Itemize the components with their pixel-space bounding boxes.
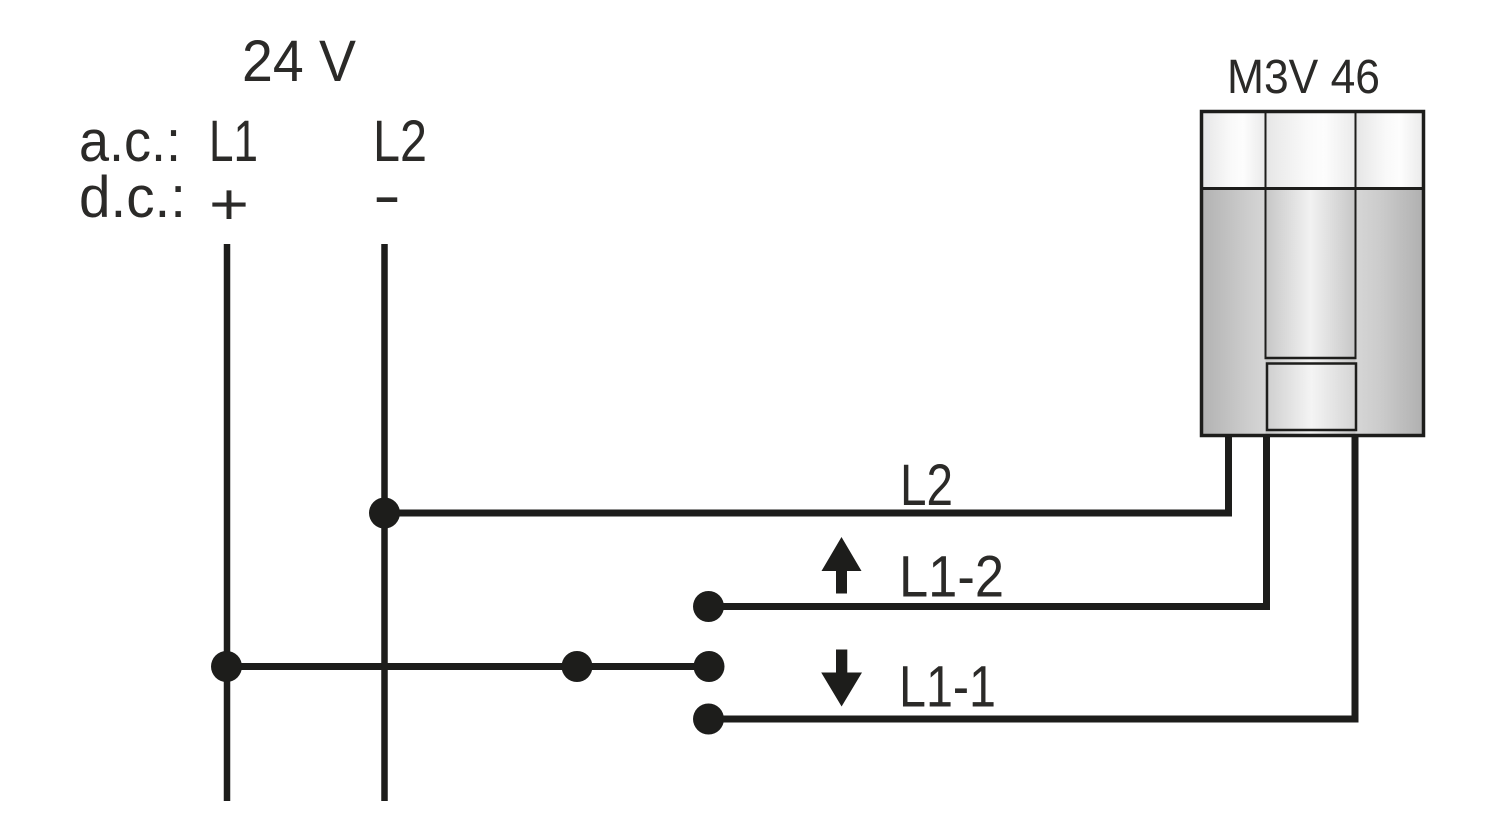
actuator top band middle cell: [1266, 112, 1356, 189]
actuator M3V 46 body: [1200, 112, 1424, 436]
junction on L2 rail: [369, 498, 400, 529]
wire common from L1 rail to switch: [227, 663, 710, 670]
actuator body left column: [1202, 189, 1266, 436]
arrow up (stem extends): [822, 537, 862, 594]
arrow down (stem retracts): [821, 650, 862, 707]
svg-text:24 V: 24 V: [242, 29, 356, 94]
wire L1 supply rail: [224, 244, 231, 801]
wire L1-1 to actuator: [709, 436, 1356, 719]
svg-text:d.c.:: d.c.:: [79, 165, 186, 230]
actuator divider left vertical: [1265, 112, 1267, 359]
actuator outline: [1202, 112, 1424, 436]
switch contact dot L1-2: [693, 591, 724, 622]
actuator divider right vertical: [1355, 112, 1357, 359]
actuator stem column bottom line: [1265, 357, 1357, 360]
wire L2 to actuator: [385, 436, 1229, 513]
switch common end dot: [694, 651, 725, 682]
svg-text:L1: L1: [209, 109, 258, 174]
svg-text:-: -: [373, 164, 401, 229]
svg-text:M3V 46: M3V 46: [1227, 51, 1380, 104]
actuator body middle column: [1266, 189, 1356, 436]
actuator body right column: [1356, 189, 1424, 436]
actuator top band right cell: [1356, 112, 1424, 189]
svg-text:L1-1: L1-1: [899, 655, 996, 720]
actuator top band left cell: [1202, 112, 1266, 189]
actuator horizontal separator: [1200, 187, 1424, 190]
switch pole dot: [562, 651, 593, 682]
svg-text:L2: L2: [900, 453, 953, 518]
junction on L1 rail: [211, 651, 242, 682]
wire L2 supply rail: [381, 244, 388, 801]
actuator indicator window: [1267, 364, 1356, 431]
svg-text:+: +: [209, 172, 249, 237]
svg-text:L1-2: L1-2: [899, 545, 1004, 610]
wire L1-2 to actuator: [709, 436, 1267, 607]
switch contact dot L1-1: [693, 704, 724, 735]
